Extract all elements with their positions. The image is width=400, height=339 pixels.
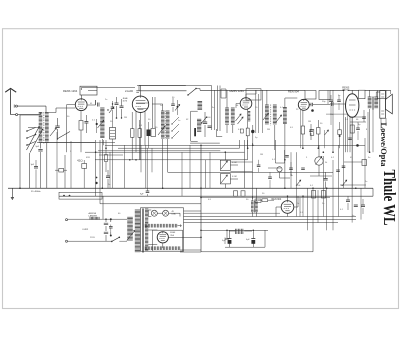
tube V6 REN 904 AF [281,201,294,214]
capacitor C22 [104,223,108,225]
capacitor C27 [342,166,346,168]
capacitor C14 [146,188,150,196]
wire coil bottoms to ground bus [41,143,96,189]
rectifier box [153,230,183,251]
capacitor C28 [348,138,352,140]
coil L4 osc [161,111,165,138]
svg-text:REN 904: REN 904 [272,198,282,201]
wire bus y148 [118,140,240,148]
coil L1 antenna primary [39,113,43,143]
label 9uF [140,194,144,196]
shield box V3 top [246,89,261,100]
tube V2 extra grids [136,103,148,109]
capacitor C8 electrolytic [251,125,254,145]
wire V2 top [140,86,142,97]
label RENS 1374d (V5) [342,86,350,92]
label ground bus [31,191,41,193]
capacitor C3 [96,100,99,107]
svg-text:Thule WL: Thule WL [380,170,399,226]
capacitor C26 [301,168,305,170]
pot P3 tone [315,145,323,176]
coil L6 padder [198,102,203,110]
T2 core [372,97,375,110]
resistor R17 [322,191,326,199]
capacitor C4 [115,97,119,118]
resistor R19 [151,129,156,137]
capacitor C36 [337,95,341,110]
resistor R25 [241,191,245,197]
capacitor C31 [336,170,340,172]
wire IF1 can sides [218,86,221,132]
AF transformer T3 secondary [255,201,258,212]
resistor R14 [105,148,108,172]
svg-text:97+480Hz: 97+480Hz [31,191,41,193]
coil L2 antenna secondary [45,113,49,143]
resistor R13 42ohm [82,160,87,188]
label 2-HAD (V2) [125,89,133,93]
power transformer T1 primary [135,210,141,252]
label REN 904 (V4) [288,90,299,94]
wire main B+ vertical [180,145,201,252]
wire osc verticals [152,104,168,188]
capacitor C32 [356,122,360,140]
output transformer T2 secondary [374,97,378,108]
capacitor C18 [361,199,365,214]
label mains AN/STA [89,212,98,218]
label Loewe/Opta [379,123,388,167]
tuning cap CV1 [55,118,59,140]
antenna terminal lower [16,114,18,116]
wire top bus [82,86,391,91]
capacitor C21 electrolytic [225,231,229,239]
wire bus y172 [168,171,333,173]
choke L13 [229,229,252,234]
capacitor C24 [111,101,115,120]
capacitor C2 cathode [84,115,88,133]
shield box V1 top cap [80,86,97,95]
wire lamp loop [148,210,180,217]
speaker LS1 [380,91,393,119]
wire right stubs [268,117,366,185]
capacitor C10 [309,124,313,140]
power box outline [141,208,184,251]
svg-text:42Ω: 42Ω [86,157,90,159]
wire V2 bottom drops [136,97,155,160]
tube V2 mixer [132,96,148,112]
wire ground bus [8,187,373,189]
lamp E2 dial [163,210,169,216]
svg-text:2-HAD: 2-HAD [125,89,133,93]
capacitor C29 [362,117,366,119]
wire V3 surround [236,90,263,133]
wire AF verticals [252,188,256,216]
svg-text:AN/STA: AN/STA [89,212,97,215]
wire V1 plate [88,100,96,105]
wire pots [225,152,238,188]
svg-text:KURZ: KURZ [83,229,89,231]
power transformer T1 secondary [145,209,148,251]
pot P1 [220,160,230,170]
svg-text:42Ω: 42Ω [77,159,83,163]
wire PSU out [148,211,201,250]
wire switch frame [20,115,40,188]
switch rod lines [139,85,187,90]
label REN 904 (V6) [272,198,282,201]
label lamps [172,211,177,215]
wire IF2 [267,90,297,188]
wire V5 plate [351,90,353,93]
ground main [11,188,14,200]
resistor R2 variable [98,120,104,128]
resistor R21 cathode V5 [350,125,354,133]
capacitor C40 [257,160,261,173]
trimmer arrow osc [158,126,165,135]
capacitor C41 [268,172,272,188]
heater winding arrow [178,225,182,227]
output transformer T2 primary [368,97,372,108]
box flat lower [59,192,102,199]
capacitor C9 [309,103,320,107]
wire PSU right caps [201,198,330,245]
wire bus y160 [95,140,332,199]
capacitor C16 [346,196,350,210]
resistor R1 cathode [79,111,83,153]
switch S3 mains [111,237,127,243]
coil L14 osc cathode [197,119,201,131]
label RGN 354 [170,232,175,237]
svg-text:0.5M: 0.5M [232,162,237,164]
svg-text:220V: 220V [90,237,95,239]
capacitor C6 padder [203,112,207,137]
wire bus y152 [85,140,245,188]
resistor R10 top [319,91,330,100]
resistor R23 [338,122,342,148]
svg-text:1M: 1M [308,121,311,123]
resistor R15 [258,199,274,202]
capacitor C13 [106,170,110,188]
IF1 tuning arrows [236,114,244,124]
resistor R20 diag [109,107,114,113]
svg-text:RENS 1264: RENS 1264 [230,89,245,93]
capacitor C44 9uF [36,146,43,188]
svg-text:0.5M: 0.5M [232,176,237,178]
wire T2 [370,90,380,152]
wire bus y219 [184,219,357,221]
resistor R3 [131,112,135,160]
wire y213 link [184,212,281,214]
wire V5 grid [320,103,346,106]
capacitor C37 [96,119,98,133]
T3 core [253,201,256,213]
wire verticals right [182,90,391,230]
IF2 primary L10 [265,105,269,124]
resistor R26 hatched [110,120,116,188]
trimmer C1 arrow [50,128,56,136]
IF1 secondary L8 [231,108,235,124]
wire V5 cathode [346,117,353,188]
resistor R9 top [305,91,316,100]
capacitor C35 [329,95,333,110]
coil L3 RF choke [100,108,104,138]
wire left verticals [57,132,110,188]
value labels [67,95,382,242]
resistor R8 [317,120,320,148]
tube V4 REN 904 [298,99,309,110]
resistor R7 [301,110,304,148]
label 42ohm [77,159,83,163]
heater winding upper [144,224,177,228]
core L4/L5 [164,111,166,140]
wire bus y155 [99,154,123,156]
resistor R28 diag [342,180,347,186]
phone jack J1 [275,140,290,178]
wire bus y216 [184,216,357,218]
svg-text:1M: 1M [260,154,263,156]
band switch S1 [26,126,43,152]
wire V1 grid drop [67,105,76,153]
osc switch contacts [171,117,179,139]
wire bus y222 [201,222,338,224]
wire grid verticals mid [104,140,153,188]
mains terminal 2 [66,240,68,242]
capacitor C15 [324,172,328,188]
node b [95,177,97,185]
winding T1 selector [127,217,135,240]
wire L3 bottom [101,139,103,188]
pot P2 [220,174,230,184]
wire bracket gang [190,86,220,144]
wire bus y145 [105,144,365,147]
capacitor C23 [104,225,113,234]
capacitor C7 [208,126,212,128]
tube V7 RGN 354 [157,232,168,243]
capacitor C11 coupling [332,102,334,106]
capacitor C19 electrolytic [228,230,232,247]
switch arm diag [57,132,70,140]
resistor R16 [312,191,316,199]
svg-text:RENS 1264: RENS 1264 [63,89,78,93]
capacitor C25 [289,162,293,176]
capacitor C34 diag [325,130,329,135]
label KURZ [83,229,89,231]
tube V5 output [346,94,359,118]
capacitor C5 [120,99,124,118]
wire IF1 [221,89,233,133]
capacitor C33 box [55,169,67,173]
wire bus y196 [59,188,373,196]
lamp E1 dial [151,210,157,216]
coil L12 demod [283,108,287,124]
wire B minus [201,223,313,252]
box IF1 base [217,129,223,137]
resistor R27 diag [296,180,301,186]
core L1/L2 [43,112,45,144]
wire V6 [276,196,298,216]
coil L9 [248,112,251,121]
capacitor C42 [285,156,289,158]
IF2 core [270,105,272,126]
tube V1 RENS 1264 [75,99,87,111]
wire mains [68,196,128,241]
coil L5 osc [166,111,170,138]
label RENS 1264 (V3) [230,89,245,93]
wire filter [201,230,268,247]
svg-text:2M: 2M [267,129,270,131]
capacitor C45 1uF [31,160,39,188]
wire bus y204 [100,203,201,205]
resistor R18 mains [90,217,99,220]
wire left lower [65,140,100,204]
wire mid verticals2 [300,110,347,152]
mains terminal 1 [66,219,68,221]
capacitor C20 electrolytic [251,231,255,247]
capacitor C39 grid top [136,91,139,93]
capacitor C17 [354,205,358,207]
AF transformer T3 primary [251,201,254,212]
antenna terminal upper [14,105,17,108]
capacitor C38 electrolytic [147,122,151,148]
wire input to grid [49,108,76,113]
label RENS 1264 (V1) [63,89,78,93]
resistor R5 [246,109,249,148]
wire bus y151 [98,150,220,152]
wire V3 plate top [246,90,256,97]
resistor R6 [240,129,243,133]
resistor R30 [255,199,261,203]
heater winding lower [144,246,180,250]
label Thule WL [380,170,399,226]
resistor R24 [234,191,238,197]
resistor R22 [310,130,314,136]
label V2 sub [123,98,129,102]
switch S4 osc [201,117,207,124]
T1 core [142,209,143,253]
IF2 secondary L11 [273,105,277,124]
IF2 arrows [263,113,282,122]
resistor R4 [138,120,142,160]
node a [107,103,122,118]
wire antenna to coil [11,106,46,115]
wire V1 top cap [82,91,98,99]
tube V3 RENS 1264 [240,98,252,110]
resistor R11 top [359,90,365,99]
IF1 primary L7 [225,108,229,124]
antenna [5,88,16,114]
node c [311,109,314,112]
svg-text:2M: 2M [124,117,127,119]
cluster grid2 caps [171,98,180,115]
switch S2 [187,88,196,96]
resistor R12 top [378,91,387,99]
wire bus y142 [37,142,115,144]
resistor R29 box [362,160,367,166]
